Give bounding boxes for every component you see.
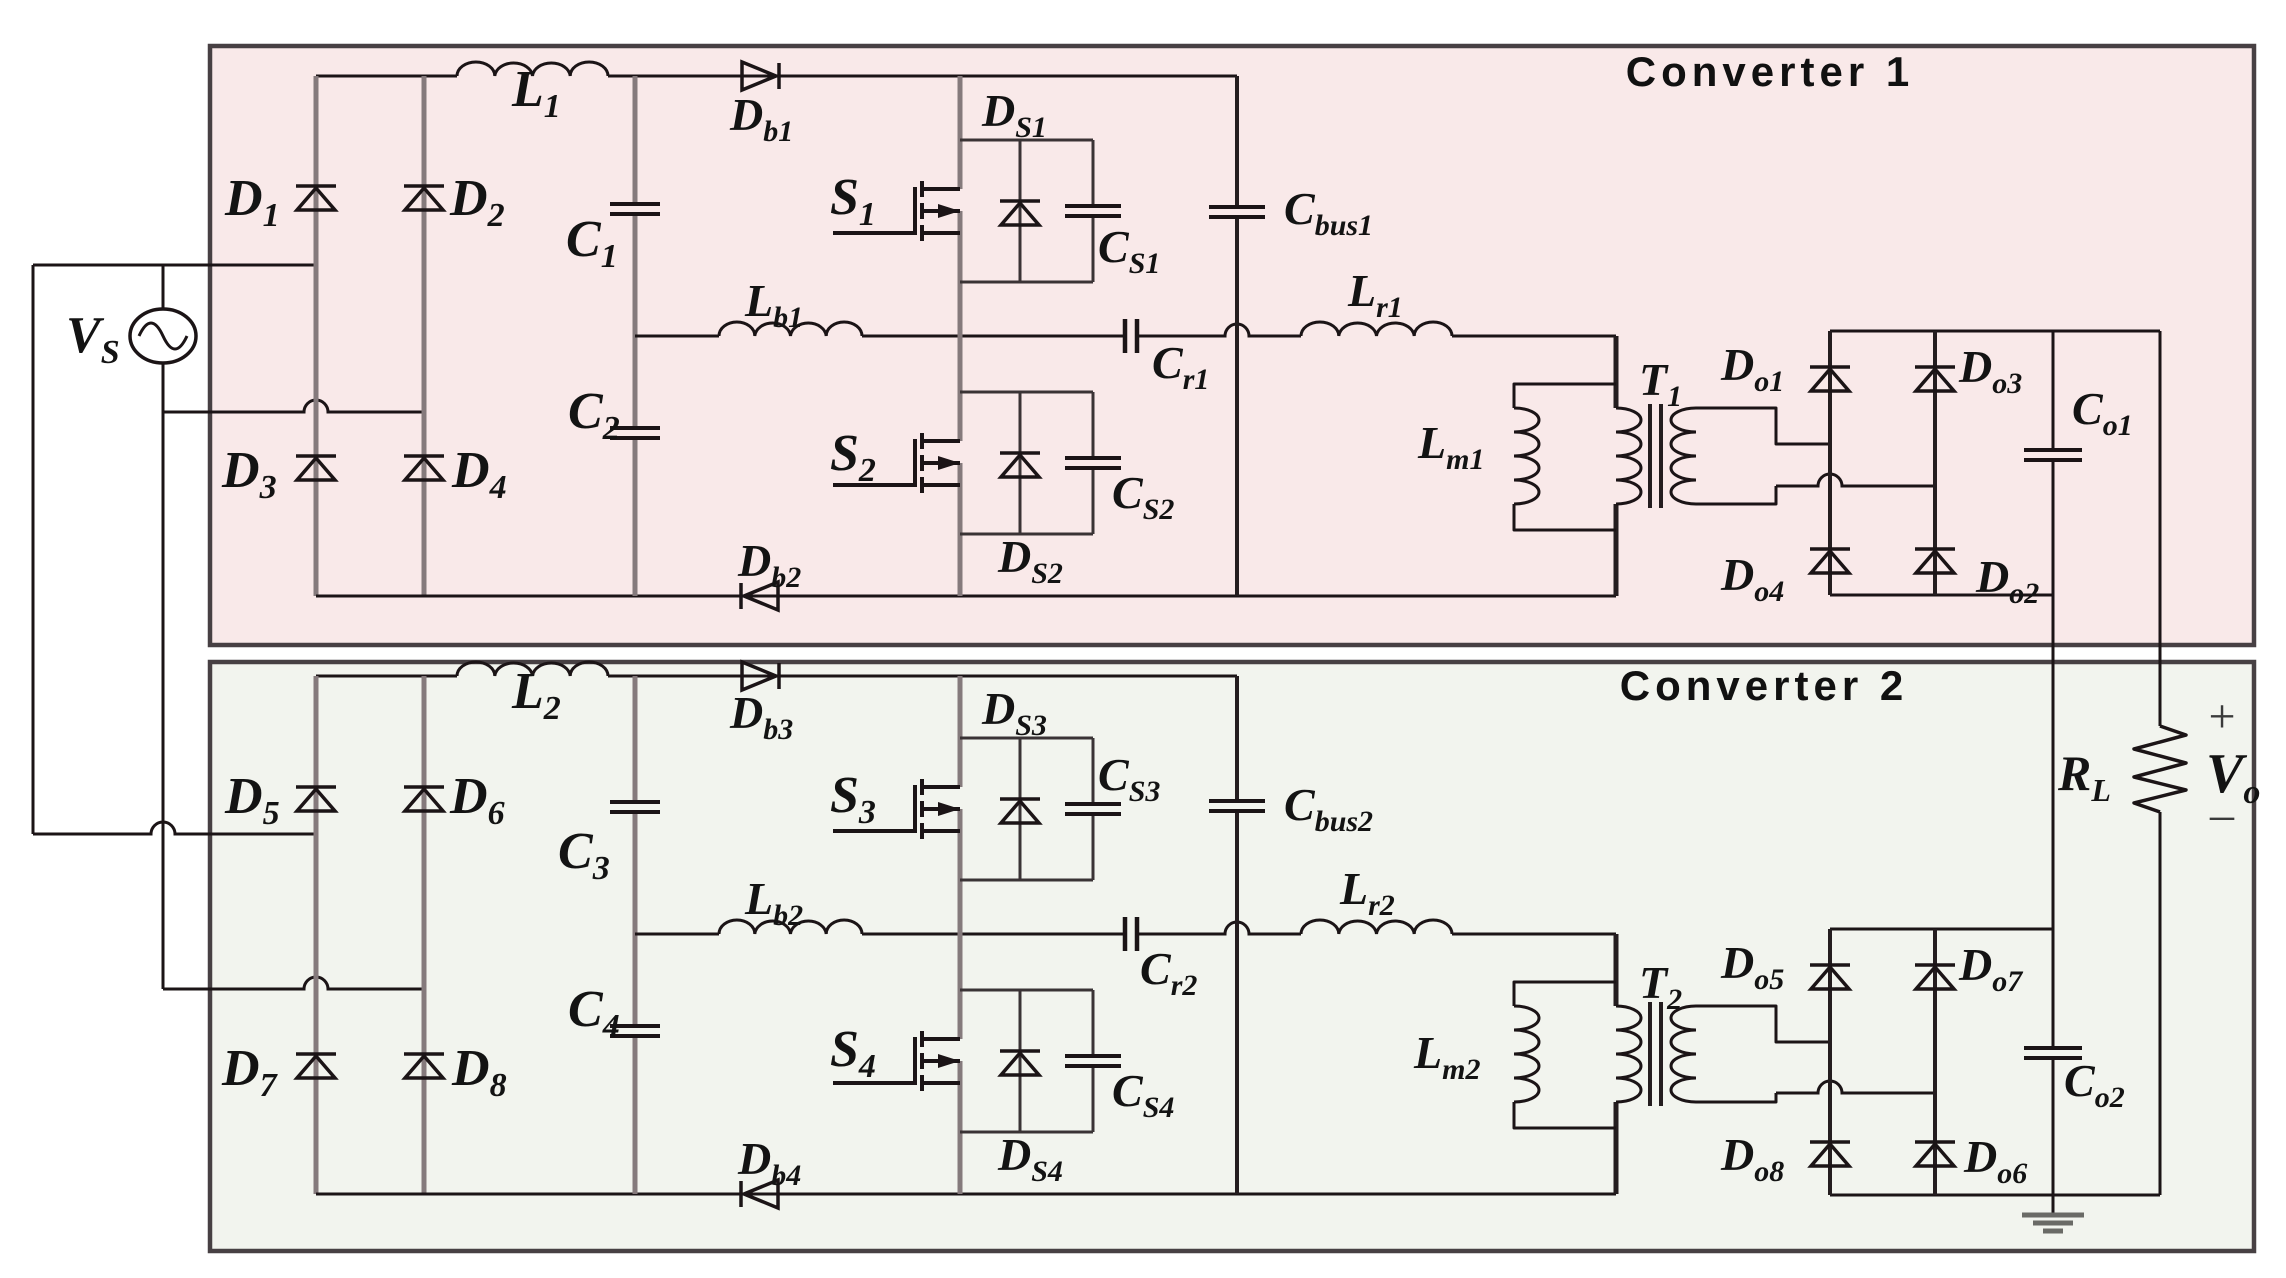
diode D5 (296, 787, 336, 811)
wire left outer vertical (32, 265, 35, 834)
diode Db3 (742, 662, 779, 690)
wire Vs top stub (162, 265, 165, 310)
wire Vs bottom vertical (162, 362, 165, 989)
capacitor C3 (610, 802, 660, 812)
diode D1 (296, 186, 336, 210)
wire output capacitor leg conv1 (2052, 331, 2055, 450)
capacitor CS2 (1065, 458, 1121, 468)
snubber box upper conv2 (960, 738, 1093, 880)
ground (2052, 1195, 2055, 1214)
diode DS1 (1000, 201, 1040, 225)
wire left outer to converter 2 bridge (33, 822, 316, 834)
diode Do7 (1915, 965, 1955, 989)
wire secondary top conv2 (1696, 1006, 1830, 1042)
wire output bridge bottom rail conv2 (1830, 1194, 2160, 1197)
diode Do2 (1915, 549, 1955, 573)
transistor S2 (833, 433, 960, 493)
diode D7 (296, 1054, 336, 1078)
wire switch leg conv1 (958, 76, 963, 189)
diode DS2 (1000, 453, 1040, 477)
wire transformer primary vertical conv1 (1614, 336, 1619, 408)
capacitor Cbus1 (1209, 207, 1265, 217)
wire Vs bottom to converter 1 bridge (163, 400, 424, 412)
source VS (130, 309, 196, 363)
wire secondary bottom conv2 (1696, 1093, 1776, 1102)
wire output bridge top rail conv2 (1830, 928, 2053, 931)
wire bottom rail conv2 (316, 1193, 1616, 1196)
wire Vs top to converter 1 bridge (33, 264, 316, 267)
diode Do5 (1810, 965, 1850, 989)
snubber box upper conv1 (960, 140, 1093, 282)
wire resonant branch conv2 (635, 933, 719, 936)
capacitor CS3 (1065, 804, 1121, 814)
diode D4 (404, 456, 444, 480)
wire Lb to Cr conv2 (862, 933, 1125, 936)
capacitor C4 (610, 1026, 660, 1036)
wire output bridge right column conv2 (1933, 929, 1937, 1195)
capacitor Cbus2 (1209, 801, 1265, 811)
wire capacitor column conv2 (633, 676, 638, 802)
wire switch leg conv2 (958, 676, 963, 787)
capacitor Co1 (2024, 450, 2082, 460)
diode Db4 (741, 1180, 778, 1208)
inductor Lb2 (719, 920, 862, 934)
diode Do6 (1915, 1142, 1955, 1166)
diode Do3 (1915, 367, 1955, 391)
capacitor CS4 (1065, 1056, 1121, 1066)
wire bus capacitor leg conv1 (1235, 76, 1239, 207)
snubber box lower conv1 (960, 392, 1093, 534)
diode Db1 (742, 62, 779, 90)
inductor Lm2 (1514, 982, 1616, 1006)
wire Lr to transformer conv2 (1452, 933, 1616, 936)
wire bridge column A conv1 (314, 76, 319, 596)
inductor Lb1 (719, 322, 862, 336)
wire transformer primary vertical conv2 (1614, 934, 1619, 1006)
wire secondary bottom conv1 (1696, 486, 1776, 504)
wire output bridge bottom rail conv1 (1830, 594, 2053, 597)
wire top rail conv2 (316, 675, 457, 678)
transistor S4 (833, 1031, 960, 1091)
inductor L1 (457, 62, 608, 76)
diode Db2 (741, 582, 778, 610)
wire Vs bottom to converter 2 bridge (163, 977, 424, 989)
wire output link Co1 to converter 2 (2052, 595, 2055, 929)
wire bridge column B conv1 (422, 76, 427, 596)
capacitor CS1 (1065, 206, 1121, 216)
wire output right vertical upper (2159, 331, 2162, 726)
svg-text:Converter 1: Converter 1 (1626, 48, 1914, 95)
wire Cr to Lr conv2 (1137, 922, 1301, 934)
wire bridge column A conv2 (314, 676, 319, 1194)
wire resonant branch conv1 (635, 335, 719, 338)
wire output bridge right column conv1 (1933, 331, 1937, 595)
svg-text:Converter 2: Converter 2 (1620, 662, 1908, 709)
wire Lr to transformer conv1 (1452, 335, 1616, 338)
inductor L2 (457, 662, 608, 676)
diode Do1 (1810, 367, 1850, 391)
inductor Lm1 (1514, 384, 1616, 408)
wire output bridge top rail conv1 (1830, 330, 2160, 333)
svg-text:–: – (2209, 788, 2235, 841)
diode D8 (404, 1054, 444, 1078)
inductor Lr2 (1301, 920, 1452, 934)
diode DS3 (1000, 799, 1040, 823)
diode Do4 (1810, 549, 1850, 573)
wire capacitor column conv1 (633, 76, 638, 204)
resistor RL (2134, 726, 2186, 812)
svg-text:VS: VS (66, 307, 120, 371)
transistor S1 (833, 181, 960, 241)
wire top rail conv1 (316, 75, 457, 78)
wire bridge column B conv2 (422, 676, 427, 1194)
capacitor C1 (610, 204, 660, 214)
capacitor C2 (610, 428, 660, 438)
wire Lb to Cr conv1 (862, 335, 1125, 338)
diode Do8 (1810, 1142, 1850, 1166)
wire bus capacitor leg conv2 (1235, 676, 1239, 801)
wire output right vertical lower (2159, 812, 2162, 1195)
transformer T2 (1616, 1006, 1641, 1102)
wire secondary top conv1 (1696, 408, 1830, 444)
transistor S3 (833, 779, 960, 839)
diode D6 (404, 787, 444, 811)
wire output capacitor leg conv2 (2052, 929, 2055, 1048)
wire output bridge left column conv2 (1828, 929, 1832, 1195)
snubber box lower conv2 (960, 990, 1093, 1132)
diode D3 (296, 456, 336, 480)
svg-text:+: + (2208, 690, 2235, 743)
wire Cr to Lr conv1 (1137, 324, 1301, 336)
converter 2 box (210, 662, 2254, 1251)
wire output bridge left column conv1 (1828, 331, 1832, 595)
diode D2 (404, 186, 444, 210)
capacitor Cr1 (1125, 319, 1137, 353)
inductor Lr1 (1301, 322, 1452, 336)
capacitor Co2 (2024, 1048, 2082, 1058)
wire bottom rail conv1 (316, 595, 1616, 598)
capacitor Cr2 (1125, 917, 1137, 951)
transformer T1 (1616, 408, 1641, 504)
converter 1 box (210, 46, 2254, 645)
diode DS4 (1000, 1051, 1040, 1075)
